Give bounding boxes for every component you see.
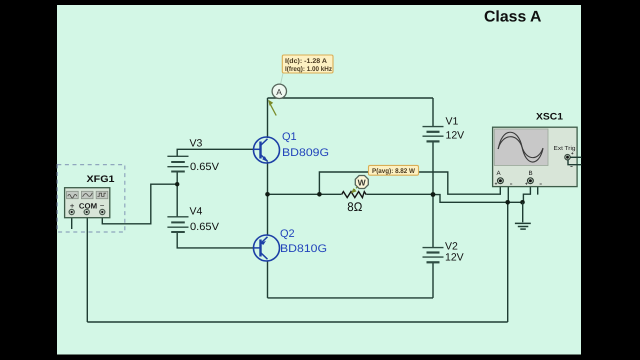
XFG1 terminal - [100,209,105,214]
power probe octagon W [355,176,368,189]
transistor Q2 (PNP BD810G) [254,235,280,261]
probe label P(avg) box [369,165,419,175]
node junction dot emitters [265,192,270,197]
function generator XFG1 body [65,188,110,218]
svg-text:Q1: Q1 [282,131,297,143]
wire V2 bottom down [432,263,434,298]
wire Q2 emitter down [267,262,269,298]
wire scope A loop [319,172,500,194]
ground [515,202,531,229]
wire resistor right lead [367,193,434,195]
svg-text:I(freq): 1.00 kHz: I(freq): 1.00 kHz [285,66,333,73]
battery V1 [423,127,444,142]
node junction dot resistor left [317,192,322,197]
schematic canvas [57,5,581,355]
XFG1 waveform button ramp [81,191,93,198]
svg-text:Q2: Q2 [280,228,295,240]
power probe arrow [351,187,358,194]
XFG1 waveform button square [96,191,108,198]
wire scope B leg [523,184,530,203]
wire V1 bottom to mid junction [432,142,434,195]
wire mid node to V4 top [176,184,178,217]
wire top horizontal to V1 [268,97,434,99]
node junction dot V3V4 mid [175,182,179,186]
wire bottom inner rail [268,297,434,299]
XFG1 waveform button sine [67,191,79,198]
wire bottom rail [87,321,507,323]
wire scope B minus stub [533,181,537,195]
svg-text:Class A: Class A [484,9,542,26]
wire V3 top to Q1 base [177,149,253,156]
current probe arrow [268,100,276,116]
wire Q1 collector up [267,98,269,138]
wire V3 bottom to mid node [176,172,178,185]
oscilloscope screen [494,129,548,166]
probe label I(dc) box [282,55,333,73]
svg-text:V4: V4 [190,205,203,217]
wire mid junction to V2 top [432,195,434,247]
svg-text:V3: V3 [190,137,203,149]
svg-text:XFG1: XFG1 [87,174,116,185]
XFG1 selection dashed box [57,165,125,232]
svg-text:12V: 12V [445,252,464,264]
battery V2 [423,248,444,263]
svg-text:B: B [529,170,533,177]
battery V3 [167,156,188,171]
wire XFG1 COM down [86,218,88,322]
wire XFG1 minus to V3V4 mid [102,184,177,224]
node junction dot supply mid [431,192,436,197]
wire node out to resistor [268,193,342,195]
scope trace A [498,132,543,162]
oscilloscope XSC1 body [493,127,577,186]
ammeter probe circle A [281,73,284,85]
transistor Q1 (NPN BD809G) [254,137,280,163]
svg-text:BD809G: BD809G [282,147,329,159]
svg-text:XSC1: XSC1 [536,112,564,123]
svg-text:V1: V1 [446,116,459,128]
svg-text:0.65V: 0.65V [190,161,219,173]
wire V1 top [432,98,434,126]
svg-text:12V: 12V [446,130,465,142]
wire V4 bottom to Q2 base [177,232,253,248]
wire ext trig to edge 1 [570,156,582,158]
battery V4 [167,217,188,232]
resistor R load 8ohm [342,192,367,198]
svg-text:W: W [358,177,367,187]
scope terminal A [498,178,504,184]
wire node out to Q2 collector [267,194,269,235]
XFG1 terminal COM [84,209,89,214]
scope terminal B [528,178,534,184]
wire scope A minus leg [503,181,508,202]
wire mid junction step to ground bus [433,195,523,203]
XFG1 terminal + [69,209,74,214]
wire Q1 emitter to node out [267,162,269,195]
svg-text:Ext Trig: Ext Trig [554,145,576,152]
node junction dot ground bus B [520,200,525,205]
scope trace B [498,137,543,158]
svg-text:I(dc): -1.28 A: I(dc): -1.28 A [285,58,327,65]
svg-text:8Ω: 8Ω [347,200,362,214]
node junction dot ground bus A [505,200,510,205]
svg-text:−: − [100,201,105,210]
svg-text:BD810G: BD810G [280,243,327,255]
svg-text:0.65V: 0.65V [190,221,219,233]
wire XFG1 plus stub [71,218,73,229]
svg-text:A: A [276,87,282,97]
scope ext trig terminal [565,155,570,160]
wire ext trig to edge 2 [568,160,582,165]
svg-text:P(avg): 8.82 W: P(avg): 8.82 W [372,168,416,175]
wire ground bus down rail [507,202,509,322]
